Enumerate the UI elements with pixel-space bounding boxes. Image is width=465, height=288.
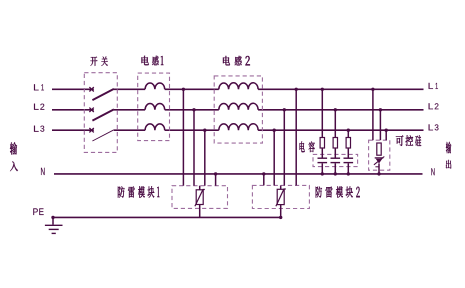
input label (shu-ru)	[10, 142, 18, 171]
RC branch C1 (L1-N): capacitor plates	[318, 148, 328, 176]
wire tap L3 to SCR box	[385, 129, 388, 141]
surge module 1 label (fang-lei-mo-kuai-1)	[118, 186, 160, 197]
output label (shu-chu)	[446, 142, 451, 169]
wire line N	[54, 173, 423, 175]
inductor 1 winding phase L1	[145, 83, 165, 89]
wire line L1	[52, 88, 424, 90]
node L2 left label	[34, 104, 44, 110]
RC branch C3 (L3-N): series resistor	[346, 129, 350, 149]
node N right label	[431, 168, 434, 175]
SCR branch: series resistor	[377, 143, 381, 155]
inductor 1 dashed box	[138, 73, 170, 141]
node L3 left label	[34, 126, 44, 132]
node L1 left label	[34, 84, 44, 90]
node L1 right label	[429, 83, 438, 89]
inductor 1 winding phase L2	[145, 104, 165, 110]
node L3 right label	[429, 124, 439, 130]
switch pole 2 (L2) contact and blade	[89, 108, 114, 121]
wire line L3	[52, 129, 424, 131]
inductor 2 winding phase L2	[219, 103, 258, 110]
wire tap N to surge module 2	[262, 172, 265, 185]
switch dashed box	[84, 73, 117, 153]
RC branch C3 (L3-N): capacitor plates	[344, 148, 354, 176]
earth ground symbol on PE	[45, 216, 63, 234]
inductor 1 winding phase L3	[145, 124, 165, 130]
wire tap N to surge module 1	[214, 172, 217, 186]
RC branch C1 (L1-N): series resistor	[320, 88, 324, 148]
wire SCR cathode to N	[377, 164, 380, 176]
inductor L-choke 1 label (dian-gan-1)	[142, 56, 164, 65]
inductor 2 winding phase L3	[219, 124, 258, 131]
thyristor symbol	[374, 157, 384, 167]
RC branch C2 (L2-N): series resistor	[333, 108, 337, 148]
capacitor bank dashed box	[313, 154, 358, 166]
switch group label (kai-guan)	[90, 56, 107, 65]
wire line L2	[52, 109, 424, 111]
wire tap L2 to SCR box	[379, 108, 382, 140]
RC branch C2 (L2-N): capacitor plates	[331, 148, 341, 176]
varistor MOV2 inside surge module 2	[276, 185, 286, 206]
varistor MOV1 inside surge module 1	[195, 186, 205, 207]
wire tap L1 to SCR box	[371, 88, 374, 141]
node L2 right label	[429, 103, 439, 109]
switch pole 3 (L3) contact and blade	[89, 128, 114, 141]
wire tap L3 to surge module 2	[273, 129, 276, 186]
wire MOV2 to PE end	[279, 205, 282, 219]
wire tap L2 to surge module 1	[192, 108, 195, 186]
capacitor bank label (dian-rong)	[300, 141, 315, 152]
node PE label	[33, 208, 43, 215]
surge module 2 label (fang-lei-mo-kuai-2)	[316, 186, 360, 197]
wire MOV1 to PE	[199, 205, 201, 218]
wire tap L2 to surge module 2	[283, 108, 286, 185]
SCR dashed box	[369, 140, 390, 170]
wire tap L1 to surge module 1	[182, 88, 185, 186]
wire tap L3 to surge module 1	[203, 129, 206, 186]
surge module 2 dashed box	[252, 185, 309, 208]
inductor 2 winding phase L1	[219, 83, 258, 90]
wire line PE	[52, 216, 282, 218]
node N left label	[41, 168, 45, 175]
switch pole 1 (L1) contact and blade	[89, 87, 114, 100]
wire tap L1 to surge module 2	[295, 88, 298, 186]
inductor L-choke 2 label (dian-gan-2)	[223, 56, 250, 65]
surge module 1 dashed box	[172, 186, 228, 209]
inductor 2 dashed box	[214, 76, 262, 143]
SCR label (ke-kong-gui)	[396, 135, 421, 146]
